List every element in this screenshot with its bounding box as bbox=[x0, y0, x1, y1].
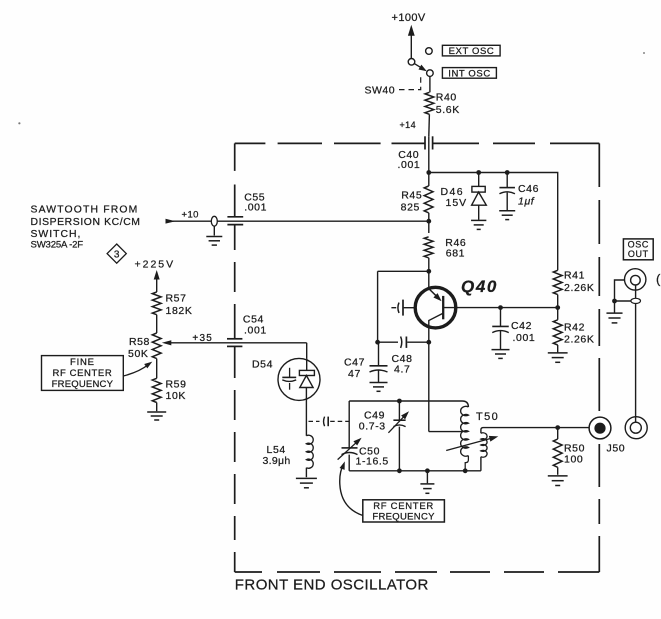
svg-text:.001: .001 bbox=[513, 332, 536, 344]
svg-text:50K: 50K bbox=[128, 348, 148, 360]
svg-text:R45: R45 bbox=[401, 190, 422, 202]
svg-text:RF CENTER: RF CENTER bbox=[53, 368, 113, 379]
svg-text:182K: 182K bbox=[166, 305, 193, 317]
svg-text:SWITCH,: SWITCH, bbox=[31, 229, 82, 240]
svg-text:1-16.5: 1-16.5 bbox=[356, 456, 389, 468]
svg-text:OUT: OUT bbox=[628, 249, 649, 259]
svg-text:FRONT END OSCILLATOR: FRONT END OSCILLATOR bbox=[235, 577, 429, 594]
svg-text:1μf: 1μf bbox=[518, 196, 535, 208]
svg-text:EXT OSC: EXT OSC bbox=[449, 46, 495, 57]
svg-text:FREQUENCY: FREQUENCY bbox=[372, 511, 435, 522]
svg-text:2.26K: 2.26K bbox=[564, 334, 594, 346]
svg-text:SAWTOOTH FROM: SAWTOOTH FROM bbox=[31, 205, 139, 216]
svg-text:R42: R42 bbox=[564, 322, 585, 334]
svg-text:OSC: OSC bbox=[628, 239, 649, 249]
svg-text:0.7-3: 0.7-3 bbox=[359, 420, 386, 432]
svg-text:R40: R40 bbox=[436, 92, 457, 104]
svg-text:3.9μh: 3.9μh bbox=[263, 455, 291, 467]
svg-text:D54: D54 bbox=[252, 359, 273, 371]
svg-text:C46: C46 bbox=[518, 183, 539, 195]
svg-text:SW325A -2F: SW325A -2F bbox=[31, 239, 84, 250]
svg-text:J50: J50 bbox=[607, 442, 626, 454]
svg-text:100: 100 bbox=[564, 454, 583, 466]
svg-text:+100V: +100V bbox=[392, 12, 426, 24]
svg-text:10K: 10K bbox=[166, 390, 186, 402]
svg-text:R57: R57 bbox=[166, 293, 187, 305]
svg-text:FREQUENCY: FREQUENCY bbox=[52, 379, 114, 390]
svg-text:47: 47 bbox=[348, 368, 361, 380]
svg-text:R59: R59 bbox=[166, 379, 187, 391]
svg-text:R58: R58 bbox=[129, 336, 150, 348]
svg-text:3: 3 bbox=[114, 250, 120, 261]
svg-text:+225V: +225V bbox=[135, 259, 176, 271]
svg-text:Q40: Q40 bbox=[461, 277, 498, 296]
svg-text:D46: D46 bbox=[441, 186, 464, 198]
svg-text:C42: C42 bbox=[511, 320, 532, 332]
svg-text:15V: 15V bbox=[446, 197, 468, 209]
svg-text:SW40: SW40 bbox=[365, 84, 396, 96]
svg-text:(: ( bbox=[656, 272, 661, 287]
svg-text:.001: .001 bbox=[244, 202, 267, 214]
svg-text:FINE: FINE bbox=[70, 357, 95, 368]
svg-text:+14: +14 bbox=[400, 120, 416, 130]
svg-text:.001: .001 bbox=[244, 325, 267, 337]
svg-text:5.6K: 5.6K bbox=[436, 104, 460, 116]
svg-text:2.26K: 2.26K bbox=[564, 282, 594, 294]
svg-text:R41: R41 bbox=[564, 269, 585, 281]
svg-text:T50: T50 bbox=[476, 411, 499, 423]
svg-text:.001: .001 bbox=[398, 159, 421, 171]
svg-text:+10: +10 bbox=[182, 210, 199, 221]
svg-text:INT OSC: INT OSC bbox=[448, 68, 491, 79]
svg-text:681: 681 bbox=[446, 247, 465, 259]
svg-text:+35: +35 bbox=[192, 333, 213, 344]
svg-text:C47: C47 bbox=[344, 357, 365, 369]
svg-text:DISPERSION KC/CM: DISPERSION KC/CM bbox=[31, 217, 141, 228]
svg-text:4.7: 4.7 bbox=[394, 364, 410, 376]
svg-text:825: 825 bbox=[401, 202, 420, 214]
